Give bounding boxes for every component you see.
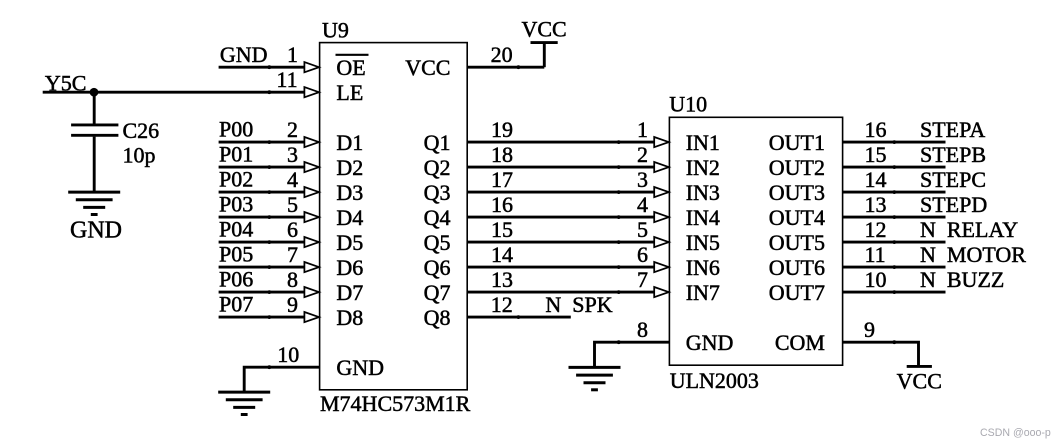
- svg-text:VCC: VCC: [897, 368, 942, 393]
- svg-text:9: 9: [864, 317, 875, 342]
- svg-text:5: 5: [287, 192, 298, 217]
- svg-text:8: 8: [287, 267, 298, 292]
- svg-text:IN2: IN2: [686, 155, 720, 180]
- svg-text:D5: D5: [336, 230, 363, 255]
- svg-text:7: 7: [287, 242, 298, 267]
- wire GND to OE pin 1: [219, 66, 305, 69]
- svg-text:D4: D4: [336, 205, 363, 230]
- svg-text:D7: D7: [336, 280, 363, 305]
- wire Q4 to IN4: [467, 216, 655, 219]
- svg-text:OUT1: OUT1: [769, 130, 825, 155]
- svg-text:10: 10: [865, 267, 887, 292]
- wire P06 to D7: [219, 291, 305, 294]
- svg-text:OUT3: OUT3: [769, 180, 825, 205]
- svg-text:18: 18: [491, 142, 513, 167]
- arrow into IN3: [654, 187, 669, 197]
- svg-text:VCC: VCC: [521, 16, 566, 41]
- svg-text:6: 6: [287, 217, 298, 242]
- svg-text:CSDN @ooo-p: CSDN @ooo-p: [980, 427, 1051, 439]
- svg-text:8: 8: [637, 317, 648, 342]
- svg-text:LE: LE: [336, 80, 363, 105]
- svg-text:GND: GND: [70, 217, 122, 243]
- svg-text:19: 19: [491, 117, 513, 142]
- svg-text:13: 13: [865, 192, 887, 217]
- svg-text:1: 1: [287, 42, 298, 67]
- svg-text:Q4: Q4: [424, 205, 451, 230]
- svg-text:15: 15: [865, 142, 887, 167]
- svg-text:N BUZZ: N BUZZ: [920, 267, 1004, 292]
- svg-text:OUT2: OUT2: [769, 155, 825, 180]
- arrow into IN5: [654, 237, 669, 247]
- arrow into pin 2: [304, 137, 319, 147]
- wire OUT6: [843, 266, 946, 269]
- wire OUT4: [843, 216, 946, 219]
- svg-text:20: 20: [491, 42, 513, 67]
- svg-text:STEPD: STEPD: [920, 192, 987, 217]
- svg-text:IN1: IN1: [686, 130, 720, 155]
- svg-text:16: 16: [865, 117, 887, 142]
- svg-text:IN7: IN7: [686, 280, 720, 305]
- svg-text:10p: 10p: [123, 143, 156, 168]
- svg-text:N SPK: N SPK: [545, 292, 612, 317]
- arrow into pin 1: [304, 62, 319, 72]
- svg-text:5: 5: [637, 217, 648, 242]
- svg-text:COM: COM: [775, 330, 825, 355]
- wire Q3 to IN3: [467, 191, 655, 194]
- arrow into IN2: [654, 162, 669, 172]
- svg-text:P02: P02: [219, 167, 253, 192]
- wire C26 to ground: [93, 137, 96, 193]
- svg-text:12: 12: [491, 292, 513, 317]
- svg-text:P05: P05: [219, 242, 253, 267]
- wire P05 to D6: [219, 266, 305, 269]
- svg-text:C26: C26: [123, 118, 160, 143]
- arrow into pin 6: [304, 237, 319, 247]
- svg-text:4: 4: [287, 167, 298, 192]
- svg-text:OUT7: OUT7: [769, 280, 825, 305]
- wire Q5 to IN5: [467, 241, 655, 244]
- wire P00 to D1: [219, 141, 305, 144]
- wire Y5C to LE pin 11: [43, 91, 305, 94]
- svg-text:10: 10: [277, 342, 299, 367]
- svg-text:17: 17: [491, 167, 513, 192]
- arrow into pin 9: [304, 312, 319, 322]
- power VCC top: [531, 43, 558, 68]
- IC U9 body: [320, 43, 468, 390]
- svg-text:12: 12: [865, 217, 887, 242]
- svg-text:7: 7: [637, 267, 648, 292]
- svg-text:2: 2: [287, 117, 298, 142]
- svg-text:2: 2: [637, 142, 648, 167]
- svg-text:11: 11: [865, 242, 886, 267]
- svg-text:D1: D1: [336, 130, 363, 155]
- svg-text:14: 14: [491, 242, 513, 267]
- wire Q6 to IN6: [467, 266, 655, 269]
- wire P04 to D5: [219, 241, 305, 244]
- wire OUT2: [843, 166, 946, 169]
- svg-text:U9: U9: [322, 18, 349, 43]
- svg-text:Q8: Q8: [424, 305, 451, 330]
- arrow into IN7: [654, 287, 669, 297]
- arrow into pin 7: [304, 262, 319, 272]
- svg-text:GND: GND: [686, 330, 734, 355]
- arrow into pin 8: [304, 287, 319, 297]
- svg-text:OUT4: OUT4: [769, 205, 825, 230]
- svg-text:D8: D8: [336, 305, 363, 330]
- svg-text:D2: D2: [336, 155, 363, 180]
- svg-text:GND: GND: [336, 355, 384, 380]
- svg-text:N MOTOR: N MOTOR: [920, 242, 1026, 267]
- svg-text:U10: U10: [669, 92, 707, 117]
- capacitor C26: [71, 125, 118, 135]
- wire junction to C26: [93, 92, 96, 123]
- svg-text:IN6: IN6: [686, 255, 720, 280]
- wire P03 to D4: [219, 216, 305, 219]
- svg-text:Q1: Q1: [424, 130, 451, 155]
- wire pin 10 to ground: [244, 367, 319, 392]
- svg-text:P01: P01: [219, 142, 253, 167]
- svg-text:OUT5: OUT5: [769, 230, 825, 255]
- wire Q1 to IN1: [467, 141, 655, 144]
- svg-text:VCC: VCC: [405, 55, 450, 80]
- wire COM to VCC: [843, 342, 919, 366]
- svg-text:STEPA: STEPA: [920, 117, 985, 142]
- svg-text:Q3: Q3: [424, 180, 451, 205]
- svg-text:4: 4: [637, 192, 648, 217]
- svg-text:1: 1: [637, 117, 648, 142]
- arrow into pin 11: [304, 87, 319, 97]
- wire Q2 to IN2: [467, 166, 655, 169]
- wire pin 8 to ground: [595, 342, 670, 367]
- svg-text:OUT6: OUT6: [769, 255, 825, 280]
- wire OUT5: [843, 241, 946, 244]
- svg-text:14: 14: [865, 167, 887, 192]
- svg-text:D3: D3: [336, 180, 363, 205]
- svg-text:15: 15: [491, 217, 513, 242]
- wire OUT7: [843, 291, 946, 294]
- svg-text:IN3: IN3: [686, 180, 720, 205]
- junction node Y5C: [90, 88, 99, 97]
- svg-text:P03: P03: [219, 192, 253, 217]
- svg-text:3: 3: [637, 167, 648, 192]
- wire OUT3: [843, 191, 946, 194]
- svg-text:16: 16: [491, 192, 513, 217]
- svg-text:OE: OE: [336, 55, 365, 80]
- svg-text:P06: P06: [219, 267, 253, 292]
- arrow into IN6: [654, 262, 669, 272]
- wire pin 20 to VCC: [467, 66, 544, 69]
- svg-text:P04: P04: [219, 217, 253, 242]
- arrow into pin 3: [304, 162, 319, 172]
- svg-text:9: 9: [287, 292, 298, 317]
- svg-text:6: 6: [637, 242, 648, 267]
- svg-text:11: 11: [276, 67, 297, 92]
- svg-text:STEPB: STEPB: [920, 142, 986, 167]
- IC U10 body: [669, 117, 842, 365]
- ground U9 pin 10: [218, 392, 270, 414]
- svg-text:ULN2003: ULN2003: [670, 368, 759, 393]
- svg-text:13: 13: [491, 267, 513, 292]
- wire Q8 net N_SPK: [467, 316, 571, 319]
- svg-text:N RELAY: N RELAY: [920, 217, 1018, 242]
- svg-text:STEPC: STEPC: [920, 167, 986, 192]
- arrow into pin 5: [304, 212, 319, 222]
- svg-text:P00: P00: [219, 117, 253, 142]
- wire P02 to D3: [219, 191, 305, 194]
- svg-text:Q7: Q7: [424, 280, 451, 305]
- svg-text:Q2: Q2: [424, 155, 451, 180]
- arrow into IN1: [654, 137, 669, 147]
- wire OUT1: [843, 141, 946, 144]
- wire P01 to D2: [219, 166, 305, 169]
- svg-text:GND: GND: [220, 42, 268, 67]
- power VCC bottom: [907, 365, 932, 368]
- arrow into IN4: [654, 212, 669, 222]
- arrow into pin 4: [304, 187, 319, 197]
- wire P07 to D8: [219, 316, 305, 319]
- svg-text:Q5: Q5: [424, 230, 451, 255]
- svg-text:P07: P07: [219, 292, 253, 317]
- svg-text:D6: D6: [336, 255, 363, 280]
- svg-text:3: 3: [287, 142, 298, 167]
- svg-text:IN4: IN4: [686, 205, 720, 230]
- svg-text:Q6: Q6: [424, 255, 451, 280]
- ground C26: [68, 192, 120, 214]
- svg-text:IN5: IN5: [686, 230, 720, 255]
- wire Q7 to IN7: [467, 291, 655, 294]
- ground U10 pin 8: [569, 367, 621, 389]
- svg-text:M74HC573M1R: M74HC573M1R: [320, 391, 471, 416]
